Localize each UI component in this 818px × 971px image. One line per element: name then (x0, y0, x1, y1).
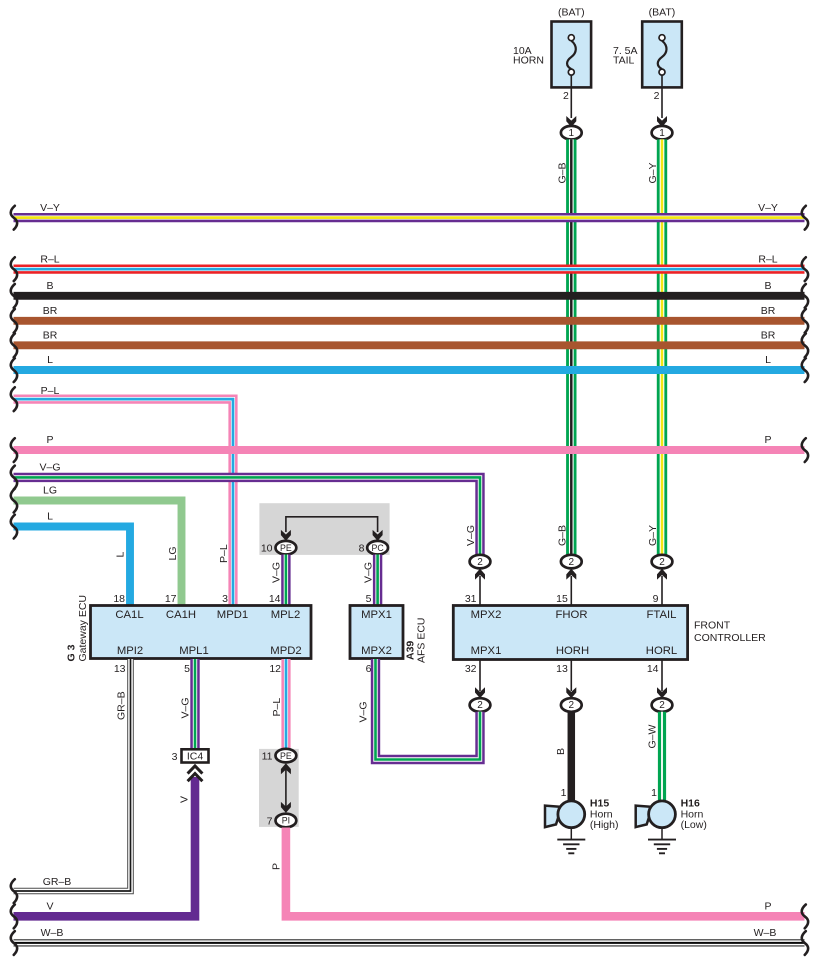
svg-text:V–G: V–G (271, 562, 283, 583)
svg-text:MPI2: MPI2 (117, 645, 143, 657)
svg-text:18: 18 (113, 593, 125, 605)
svg-text:MPX1: MPX1 (361, 609, 392, 621)
wire L bus (14, 366, 805, 374)
connector 2 below pin 14 (652, 698, 673, 712)
svg-text:P–L: P–L (271, 698, 283, 717)
wire V-G MPL1 to IC4 (190, 659, 199, 749)
svg-text:G–B: G–B (556, 162, 568, 183)
junction shield PE-PC (259, 503, 389, 555)
wire P-L MPD2 to PE (281, 659, 290, 750)
svg-text:32: 32 (465, 663, 477, 675)
svg-text:2: 2 (569, 700, 575, 711)
svg-text:V–G: V–G (39, 462, 60, 474)
svg-text:7: 7 (267, 815, 273, 827)
svg-text:MPX1: MPX1 (471, 645, 502, 657)
svg-text:B: B (764, 280, 771, 292)
break R–L left (11, 257, 17, 281)
svg-text:G 3: G 3 (66, 644, 78, 661)
svg-text:5: 5 (184, 663, 190, 675)
svg-text:HORH: HORH (556, 645, 589, 657)
svg-text:G–Y: G–Y (647, 162, 659, 183)
break R–L right (802, 257, 808, 281)
connector 2 above pin 31 (470, 555, 491, 569)
junction shield PE-PI (259, 749, 299, 827)
svg-text:B: B (555, 748, 567, 755)
svg-text:GR–B: GR–B (115, 691, 127, 720)
svg-text:MPL2: MPL2 (271, 609, 301, 621)
svg-text:V–Y: V–Y (758, 202, 778, 214)
svg-text:L: L (47, 511, 53, 523)
svg-text:LG: LG (167, 546, 179, 560)
break W-B right (802, 931, 808, 955)
svg-text:13: 13 (114, 663, 126, 675)
connector 1 below fuse HORN (561, 126, 582, 140)
svg-text:17: 17 (165, 593, 177, 605)
front controller box (453, 606, 687, 660)
svg-text:PC: PC (371, 543, 384, 553)
break L right (802, 358, 808, 382)
svg-text:2: 2 (659, 700, 665, 711)
svg-text:8: 8 (359, 543, 365, 555)
wire R–L bus (14, 265, 805, 274)
svg-text:2: 2 (654, 90, 660, 102)
wire BR bus (14, 317, 805, 325)
svg-text:P: P (764, 434, 771, 446)
svg-text:W–B: W–B (41, 927, 64, 939)
svg-text:B: B (46, 280, 53, 292)
svg-text:AFS ECU: AFS ECU (416, 617, 428, 663)
svg-text:LG: LG (43, 485, 57, 497)
break V–Y left (11, 206, 17, 230)
svg-text:BR: BR (43, 330, 58, 342)
svg-text:BR: BR (761, 305, 776, 317)
svg-text:CA1H: CA1H (166, 609, 196, 621)
ground H16 (648, 828, 676, 854)
wire pin 31 to connector 2 (479, 576, 481, 606)
svg-text:3: 3 (222, 593, 228, 605)
svg-text:IC4: IC4 (187, 751, 204, 763)
svg-text:1: 1 (569, 128, 575, 139)
svg-text:Gateway ECU: Gateway ECU (77, 595, 89, 662)
break L2 left (11, 515, 17, 539)
svg-text:(BAT): (BAT) (649, 7, 676, 19)
svg-text:9: 9 (653, 593, 659, 605)
wire L bus to CA1L (14, 527, 131, 606)
svg-text:PE: PE (280, 751, 292, 761)
svg-text:R–L: R–L (40, 253, 59, 265)
svg-text:G–B: G–B (556, 525, 568, 546)
wire GR-B MPI2 to left (14, 659, 131, 891)
break BR left (11, 334, 17, 358)
svg-text:CONTROLLER: CONTROLLER (694, 632, 766, 644)
svg-text:V: V (179, 796, 191, 803)
svg-text:R–L: R–L (758, 253, 777, 265)
break P-L left (11, 387, 17, 411)
svg-text:(High): (High) (590, 819, 619, 831)
wire pin 14 down to connector 2 (661, 660, 663, 692)
svg-text:1: 1 (561, 787, 567, 799)
svg-text:2: 2 (659, 557, 665, 568)
break B left (11, 284, 17, 308)
break L left (11, 358, 17, 382)
svg-text:G–W: G–W (647, 724, 659, 748)
svg-text:1: 1 (659, 128, 665, 139)
horn H15 (High) (545, 801, 585, 828)
wire link PE to PC (286, 517, 378, 532)
svg-text:L: L (765, 354, 771, 366)
svg-text:FTAIL: FTAIL (647, 609, 677, 621)
connector 2 above pin 9 (652, 555, 673, 569)
connector 2 below pin 13 (561, 698, 582, 712)
svg-text:2: 2 (563, 90, 569, 102)
svg-text:11: 11 (262, 751, 273, 763)
svg-text:HORN: HORN (513, 55, 544, 67)
svg-text:G–Y: G–Y (647, 525, 659, 546)
svg-text:5: 5 (366, 593, 372, 605)
wire G-Y vertical (FTAIL feed) (657, 139, 667, 554)
wire link PE to PI (285, 769, 287, 808)
svg-text:V–G: V–G (465, 525, 477, 546)
svg-text:P: P (764, 901, 771, 913)
svg-text:(Low): (Low) (681, 819, 707, 831)
svg-text:MPD1: MPD1 (217, 609, 248, 621)
wire P-L bus to MPD1 (14, 399, 234, 605)
break P right (802, 438, 808, 462)
svg-text:BR: BR (43, 305, 58, 317)
break V–Y right (802, 206, 808, 230)
svg-text:3: 3 (172, 751, 178, 763)
svg-text:1: 1 (651, 787, 657, 799)
svg-text:L: L (115, 552, 127, 558)
svg-text:(BAT): (BAT) (558, 7, 585, 19)
wire pin 32 down to connector 2 (479, 660, 481, 692)
break BR right (802, 334, 808, 358)
connector 1 below fuse TAIL (652, 126, 673, 140)
wire pin 15 to connector 2 (570, 576, 572, 606)
wire W-B bus (14, 939, 805, 946)
wire G-W to horn low (658, 712, 666, 801)
svg-text:14: 14 (269, 593, 281, 605)
break V-G left (11, 466, 17, 490)
connector 2 above pin 15 (561, 555, 582, 569)
svg-text:2: 2 (477, 700, 483, 711)
svg-text:V–G: V–G (358, 701, 370, 722)
wire pin 13 down to connector 2 (570, 660, 572, 692)
svg-text:MPX2: MPX2 (361, 645, 392, 657)
svg-text:BR: BR (761, 330, 776, 342)
horn H16 (Low) (636, 801, 676, 828)
shield chevrons IC4 (188, 766, 203, 781)
wire V–Y bus (14, 213, 805, 222)
svg-text:6: 6 (366, 663, 372, 675)
wire fuse HORN to connector (570, 75, 572, 118)
svg-text:P: P (46, 434, 53, 446)
wire fuse TAIL to connector (661, 75, 663, 118)
break LG left (11, 489, 17, 513)
break BR right (802, 309, 808, 333)
break B right (802, 284, 808, 308)
break GR-B left (11, 879, 17, 903)
wire LG bus to CA1H (14, 501, 182, 606)
svg-text:PI: PI (282, 816, 290, 826)
svg-text:GR–B: GR–B (43, 876, 72, 888)
break BR left (11, 309, 17, 333)
svg-text:15: 15 (556, 593, 568, 605)
wire P PI to right (286, 828, 805, 917)
wire B bus (14, 292, 805, 300)
wire pin 9 to connector 2 (661, 576, 663, 606)
fuse HORN body (552, 22, 592, 88)
svg-text:P–L: P–L (218, 544, 230, 563)
wire V-G PE to MPL2 (281, 555, 290, 606)
ground H15 (557, 828, 585, 854)
svg-text:10: 10 (261, 543, 273, 555)
connector 2 below pin 32 (470, 698, 491, 712)
svg-text:13: 13 (556, 663, 568, 675)
svg-text:W–B: W–B (754, 927, 777, 939)
svg-text:2: 2 (477, 557, 483, 568)
svg-text:31: 31 (465, 593, 477, 605)
svg-text:V–G: V–G (180, 697, 192, 718)
svg-text:V: V (46, 901, 53, 913)
svg-text:V–Y: V–Y (40, 202, 60, 214)
wire V-G front controller to AFS (376, 659, 481, 760)
wire V-G bus to front controller (14, 477, 481, 554)
svg-text:14: 14 (647, 663, 659, 675)
svg-text:12: 12 (269, 663, 281, 675)
ECU G3 Gateway ECU box (91, 606, 312, 659)
svg-text:MPL1: MPL1 (179, 645, 209, 657)
break P right bottom (802, 905, 808, 929)
wire V-G PC to MPX1 (373, 555, 382, 606)
svg-text:TAIL: TAIL (613, 55, 635, 67)
svg-text:L: L (47, 354, 53, 366)
wire P bus (14, 446, 805, 454)
svg-text:PE: PE (280, 543, 292, 553)
break P left (11, 438, 17, 462)
wire G-B vertical (FHOR feed) (566, 139, 576, 554)
svg-text:FRONT: FRONT (694, 620, 731, 632)
break V left (11, 905, 17, 929)
svg-text:CA1L: CA1L (115, 609, 143, 621)
svg-text:P: P (271, 863, 283, 870)
svg-text:MPX2: MPX2 (471, 609, 502, 621)
svg-text:FHOR: FHOR (555, 609, 587, 621)
svg-text:2: 2 (569, 557, 575, 568)
fuse TAIL body (642, 22, 682, 88)
svg-text:V–G: V–G (362, 562, 374, 583)
wire V IC4 to left (14, 777, 196, 916)
svg-text:HORL: HORL (646, 645, 677, 657)
svg-text:P–L: P–L (41, 385, 60, 397)
break W-B left (11, 931, 17, 955)
wire B to horn high (568, 712, 576, 801)
wire BR bus (14, 341, 805, 349)
ECU A39 AFS ECU box (350, 606, 403, 659)
svg-text:MPD2: MPD2 (270, 645, 301, 657)
